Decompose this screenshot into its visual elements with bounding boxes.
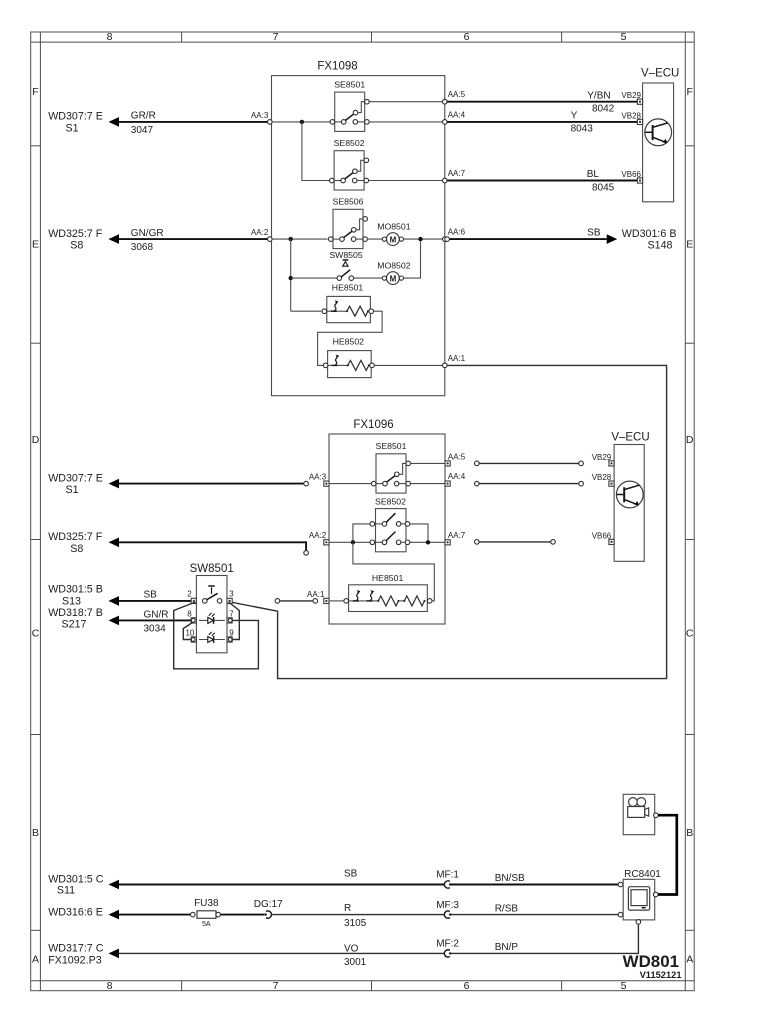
svg-text:AA:3: AA:3	[251, 111, 269, 120]
switch SW8501	[196, 576, 227, 653]
wire Y 8043	[447, 121, 637, 123]
wire HE8502 to AA:1	[374, 364, 443, 366]
svg-text:VB66: VB66	[621, 170, 641, 179]
svg-text:AA:2: AA:2	[251, 228, 269, 237]
svg-text:7: 7	[273, 980, 279, 992]
wire SE8501 top to AA:5 FX1096	[410, 462, 445, 464]
wire SE8501 to AA:4 FX1096	[410, 483, 445, 485]
svg-text:R/SB: R/SB	[495, 903, 519, 914]
svg-text:AA:7: AA:7	[448, 531, 466, 540]
svg-text:S217: S217	[62, 619, 87, 631]
svg-text:E: E	[686, 239, 693, 251]
wire MO8502 up to junction	[404, 241, 421, 278]
svg-text:WD301:6 B: WD301:6 B	[622, 228, 677, 240]
stub wire AA:1 FX1096	[280, 600, 313, 602]
svg-text:Y/BN: Y/BN	[587, 90, 610, 101]
pin RC8401 right	[653, 892, 658, 897]
arrow WD301:6 B S148	[607, 234, 618, 244]
svg-text:S13: S13	[62, 596, 81, 608]
svg-text:M: M	[390, 235, 397, 244]
wire GN/GR 3068 row E	[118, 238, 268, 240]
svg-text:MO8501: MO8501	[377, 222, 410, 232]
pin FX1098 AA:7	[443, 178, 448, 183]
wire SB to WD301:6 B	[447, 238, 606, 240]
svg-text:SW8505: SW8505	[329, 250, 362, 260]
stub wire AA:5 row	[479, 462, 579, 464]
svg-text:SB: SB	[587, 228, 601, 239]
pin V-ECU VB28	[637, 119, 642, 124]
svg-text:VB29: VB29	[592, 453, 612, 462]
switch SE8502 in FX1096 double pole	[376, 509, 407, 552]
svg-text:FX1092.P3: FX1092.P3	[48, 955, 102, 967]
svg-text:SW8501: SW8501	[190, 563, 234, 575]
wire branch vertical left	[290, 239, 292, 311]
wire GR/R 3047 row F	[118, 121, 268, 123]
svg-text:SE8501: SE8501	[376, 441, 407, 451]
svg-text:WD307:7 E: WD307:7 E	[48, 472, 103, 484]
node junction right row E	[418, 237, 422, 241]
svg-text:GN/R: GN/R	[144, 609, 169, 620]
wire SE8502 right link	[410, 524, 428, 540]
arrow WD317:7 C FX1092.P3	[109, 949, 120, 959]
svg-text:5: 5	[621, 31, 627, 43]
wire jumper pins 2-7	[174, 602, 259, 669]
svg-text:A: A	[686, 954, 693, 966]
svg-text:8042: 8042	[592, 104, 615, 115]
svg-text:8: 8	[107, 31, 113, 43]
wire branch down to SE8502	[302, 122, 329, 181]
svg-text:6: 6	[464, 31, 470, 43]
svg-text:AA:4: AA:4	[448, 110, 466, 119]
svg-text:F: F	[32, 86, 38, 98]
wire to HE8501	[291, 310, 322, 312]
svg-text:BL: BL	[587, 169, 600, 180]
wire R 3105 to MF:3	[271, 914, 444, 916]
svg-text:M: M	[390, 274, 397, 283]
stub wire AA:4 row	[479, 483, 579, 485]
svg-text:WD325:7 F: WD325:7 F	[48, 228, 103, 240]
svg-text:C: C	[32, 628, 40, 640]
svg-text:8: 8	[187, 609, 192, 618]
wire AA:2 to SE8506	[272, 238, 327, 240]
svg-text:SE8502: SE8502	[334, 138, 365, 148]
svg-text:R: R	[344, 903, 351, 914]
svg-text:3047: 3047	[131, 125, 154, 136]
svg-text:A: A	[32, 954, 39, 966]
pin FX1098 AA:5	[443, 99, 448, 104]
svg-text:Y: Y	[571, 111, 578, 122]
wire SE8501 top to AA:5	[369, 101, 443, 103]
svg-text:8045: 8045	[592, 182, 615, 193]
wire SB row B	[118, 884, 444, 886]
arrow WD307:7 E S1	[109, 117, 120, 127]
transistor in V-ECU top	[645, 119, 672, 146]
svg-text:7: 7	[273, 31, 279, 43]
wire jumper pins 8-10	[183, 622, 193, 640]
svg-text:RC8401: RC8401	[624, 869, 661, 880]
arrow WD301:5 C S11	[109, 880, 120, 890]
lamp LED SW8501 upper	[199, 619, 225, 621]
svg-text:AA:6: AA:6	[448, 228, 466, 237]
svg-text:HE8501: HE8501	[372, 573, 404, 583]
switch blade SW8501	[203, 599, 208, 604]
svg-text:MF:2: MF:2	[436, 939, 459, 950]
frame row ticks left	[31, 145, 41, 147]
lamp LED SW8501 lower	[199, 639, 225, 641]
wire camera to RC8401	[658, 815, 677, 894]
svg-text:WD801: WD801	[623, 952, 679, 971]
wire AA:1 loop to SW8501 pin 3	[228, 365, 667, 678]
svg-text:V1152121: V1152121	[640, 970, 682, 980]
svg-text:S8: S8	[70, 543, 83, 555]
svg-text:S1: S1	[65, 484, 78, 496]
pin FX1098 AA:4	[443, 120, 448, 125]
svg-text:WD325:7 F: WD325:7 F	[48, 531, 103, 543]
wire row D from arrow	[118, 483, 303, 485]
wire junction down to HE8501 FX1096	[353, 542, 434, 601]
svg-text:VB28: VB28	[621, 111, 641, 120]
svg-text:AA:4: AA:4	[448, 472, 466, 481]
svg-text:AA:1: AA:1	[307, 590, 325, 599]
svg-text:AA:5: AA:5	[448, 452, 466, 461]
pin V-ECU VB28 middle	[609, 481, 614, 486]
svg-text:MF:1: MF:1	[436, 870, 459, 881]
wire Y/BN 8042	[447, 101, 637, 103]
display icon screen	[628, 887, 649, 910]
svg-text:AA:1: AA:1	[448, 354, 466, 363]
wire SB row C	[118, 600, 194, 602]
svg-text:FX1096: FX1096	[353, 419, 393, 431]
svg-text:HE8501: HE8501	[332, 283, 364, 293]
node junction FX1096 left	[351, 540, 355, 544]
svg-text:AA:5: AA:5	[448, 90, 466, 99]
wire MO8501 to AA:6	[404, 238, 444, 240]
pin FX1096 AA:5	[445, 461, 450, 466]
junction box FX1096	[329, 434, 445, 624]
wire VO 3001 row A	[118, 952, 444, 954]
svg-text:S11: S11	[57, 884, 75, 896]
svg-text:S148: S148	[648, 240, 673, 252]
frame column ticks bottom	[181, 981, 183, 991]
arrow WD325:7 F S8 row D	[109, 538, 120, 548]
svg-text:WD318:7 B: WD318:7 B	[48, 607, 103, 619]
svg-text:MO8502: MO8502	[377, 261, 410, 271]
svg-text:DG:17: DG:17	[254, 899, 283, 910]
arrow WD307:7 E S1 row D	[109, 479, 120, 489]
svg-text:3: 3	[229, 590, 234, 599]
camera icon	[629, 798, 638, 807]
svg-text:V–ECU: V–ECU	[611, 431, 649, 443]
node open end row D	[304, 481, 309, 486]
svg-text:WD316:6 E: WD316:6 E	[48, 907, 103, 919]
pin V-ECU VB29	[637, 99, 642, 104]
wire HE8501 to HE8502	[318, 311, 383, 365]
node junction row E	[289, 237, 293, 241]
svg-text:GR/R: GR/R	[131, 111, 156, 122]
switch SE8506 in FX1098	[333, 209, 363, 248]
wire BN/SB to RC8401	[451, 884, 618, 886]
pin RC8401 bottom	[636, 920, 641, 925]
svg-text:SE8506: SE8506	[333, 197, 364, 207]
wire to SW8505	[291, 277, 338, 279]
svg-text:2: 2	[187, 590, 192, 599]
wire inside FX1096 AA:3	[329, 483, 371, 485]
svg-text:S8: S8	[70, 240, 83, 252]
wire SE8502 left link	[353, 524, 370, 540]
svg-text:D: D	[686, 434, 694, 446]
pin camera right	[654, 813, 659, 818]
svg-text:FU38: FU38	[194, 898, 219, 909]
frame column ticks top	[181, 32, 183, 42]
heater HE8502 in FX1098	[328, 351, 372, 378]
svg-text:HE8502: HE8502	[333, 337, 365, 347]
svg-text:10: 10	[185, 628, 194, 637]
svg-text:7: 7	[229, 609, 234, 618]
transistor in V-ECU middle	[616, 481, 643, 508]
svg-text:WD317:7 C: WD317:7 C	[48, 942, 104, 954]
svg-text:V–ECU: V–ECU	[641, 67, 679, 79]
wire BN/P to RC8401 bottom pin	[451, 924, 639, 953]
arrow WD301:5 B S13	[109, 596, 120, 606]
svg-text:BN/P: BN/P	[495, 942, 519, 953]
svg-text:6: 6	[464, 980, 470, 992]
svg-text:VB66: VB66	[592, 531, 612, 540]
svg-text:3034: 3034	[144, 623, 167, 634]
pin RC8401 left bottom	[618, 912, 623, 917]
wire SE8502 to AA:7	[369, 180, 444, 182]
svg-text:3105: 3105	[344, 918, 367, 929]
stub wire AA:7 row	[479, 541, 551, 543]
switch SE8501 in FX1096	[376, 454, 406, 493]
svg-text:MF:3: MF:3	[436, 900, 459, 911]
svg-text:8043: 8043	[571, 124, 594, 135]
svg-text:C: C	[686, 628, 694, 640]
svg-text:AA:2: AA:2	[309, 531, 327, 540]
pin V-ECU VB29 middle	[609, 461, 614, 466]
wire jumper pins 3-9	[229, 602, 240, 640]
svg-text:GN/GR: GN/GR	[131, 228, 164, 239]
pin V-ECU VB66 middle	[609, 539, 614, 544]
svg-text:5A: 5A	[202, 921, 211, 928]
svg-text:3001: 3001	[344, 957, 367, 968]
pin FX1098 AA:6	[443, 237, 448, 242]
arrow WD325:7 F S8	[109, 234, 120, 244]
svg-text:SB: SB	[344, 869, 358, 880]
wire R/SB to RC8401	[451, 914, 618, 916]
arrow WD316:6 E	[109, 910, 120, 920]
svg-text:F: F	[686, 86, 692, 98]
node junction FX1096 right	[426, 540, 430, 544]
svg-text:B: B	[32, 827, 39, 839]
svg-text:5: 5	[621, 980, 627, 992]
pin RC8401 left top	[618, 882, 623, 887]
svg-text:FX1098: FX1098	[317, 61, 357, 73]
wire SW8505 to MO8502	[353, 277, 384, 279]
node open end row 5	[304, 551, 309, 556]
svg-text:BN/SB: BN/SB	[495, 873, 525, 884]
svg-text:WD301:5 B: WD301:5 B	[48, 584, 103, 596]
svg-text:SB: SB	[144, 589, 158, 600]
svg-text:AA:7: AA:7	[448, 169, 466, 178]
node junction SW8505 branch	[289, 276, 293, 280]
svg-text:S1: S1	[65, 122, 78, 134]
wire SE8502 to AA:7 FX1096	[410, 541, 445, 543]
svg-text:8: 8	[107, 980, 113, 992]
pin FX1096 AA:4	[445, 481, 450, 486]
svg-text:SE8502: SE8502	[375, 496, 406, 506]
svg-text:9: 9	[229, 628, 234, 637]
wire inside FX1096 AA:2	[329, 541, 370, 543]
wire BL 8045	[447, 180, 637, 182]
border frame inner lines	[39, 32, 41, 991]
wire AA:4 inside	[369, 121, 443, 123]
junction box FX1098	[272, 76, 445, 396]
wire AA:3 to SE8501	[272, 121, 330, 123]
svg-text:WD307:7 E: WD307:7 E	[48, 111, 103, 123]
node junction row F	[300, 120, 304, 124]
wire row 5 from arrow	[118, 542, 306, 550]
svg-text:VB28: VB28	[592, 473, 612, 482]
wire inside FX1096 AA:1	[329, 600, 344, 602]
heater HE8501 in FX1096	[349, 585, 428, 612]
wire fuse to DG:17	[220, 914, 264, 916]
svg-text:SE8501: SE8501	[334, 80, 365, 90]
svg-text:D: D	[32, 434, 40, 446]
heater HE8501 in FX1098	[327, 296, 371, 322]
svg-text:E: E	[32, 239, 39, 251]
camera CA8401 box	[623, 794, 655, 834]
wire to fuse row B2	[118, 914, 190, 916]
frame row ticks right	[685, 145, 694, 147]
svg-text:VO: VO	[344, 943, 359, 954]
svg-text:3068: 3068	[131, 242, 154, 253]
ECU V-ECU top	[643, 83, 674, 202]
pin V-ECU VB66	[637, 178, 642, 183]
wire GN/R 3034 row C	[118, 619, 194, 621]
svg-text:VB29: VB29	[621, 91, 641, 100]
ECU V-ECU middle	[614, 445, 644, 562]
switch SE8501 in FX1098	[335, 92, 365, 131]
switch SE8502 in FX1098	[334, 151, 364, 190]
svg-text:AA:3: AA:3	[309, 473, 327, 482]
svg-text:B: B	[686, 827, 693, 839]
pin FX1098 AA:1	[443, 363, 448, 368]
wire SE8506 to motor MO8501	[367, 238, 384, 240]
arrow WD318:7 B S217	[109, 616, 120, 626]
pin FX1096 AA:7	[445, 540, 450, 545]
